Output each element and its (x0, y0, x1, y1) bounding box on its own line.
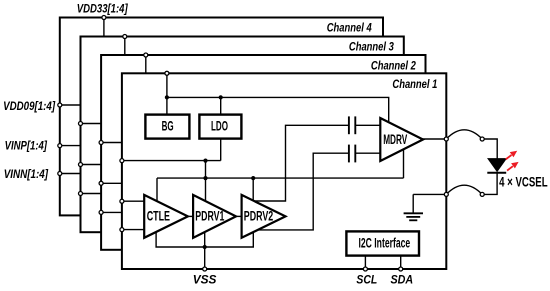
svg-text:VINP[1:4]: VINP[1:4] (5, 139, 48, 153)
svg-text:BG: BG (162, 119, 174, 134)
svg-text:PDRV2: PDRV2 (244, 208, 273, 223)
svg-text:VDD33[1:4]: VDD33[1:4] (77, 2, 129, 16)
svg-text:Channel 4: Channel 4 (327, 21, 372, 35)
svg-text:SCL: SCL (356, 273, 377, 287)
svg-text:VDD09[1:4]: VDD09[1:4] (3, 99, 56, 113)
svg-text:CTLE: CTLE (147, 208, 170, 223)
svg-text:I2C Interface: I2C Interface (359, 236, 411, 251)
svg-text:MDRV: MDRV (383, 132, 407, 147)
svg-text:4 × VCSEL: 4 × VCSEL (499, 175, 547, 190)
svg-text:VINN[1:4]: VINN[1:4] (4, 167, 49, 181)
svg-text:SDA: SDA (391, 273, 414, 287)
svg-text:Channel 2: Channel 2 (371, 58, 416, 72)
svg-text:VSS: VSS (193, 273, 217, 287)
svg-text:LDO: LDO (211, 119, 228, 134)
svg-text:Channel 3: Channel 3 (349, 40, 394, 54)
svg-text:PDRV1: PDRV1 (195, 208, 224, 223)
svg-text:Channel 1: Channel 1 (392, 77, 437, 91)
